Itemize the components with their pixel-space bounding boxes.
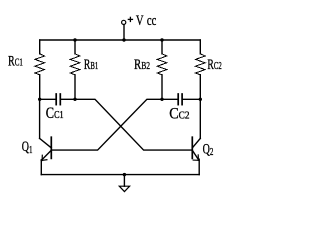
svg-text:V: V <box>136 13 144 29</box>
svg-text:cc: cc <box>147 13 157 29</box>
